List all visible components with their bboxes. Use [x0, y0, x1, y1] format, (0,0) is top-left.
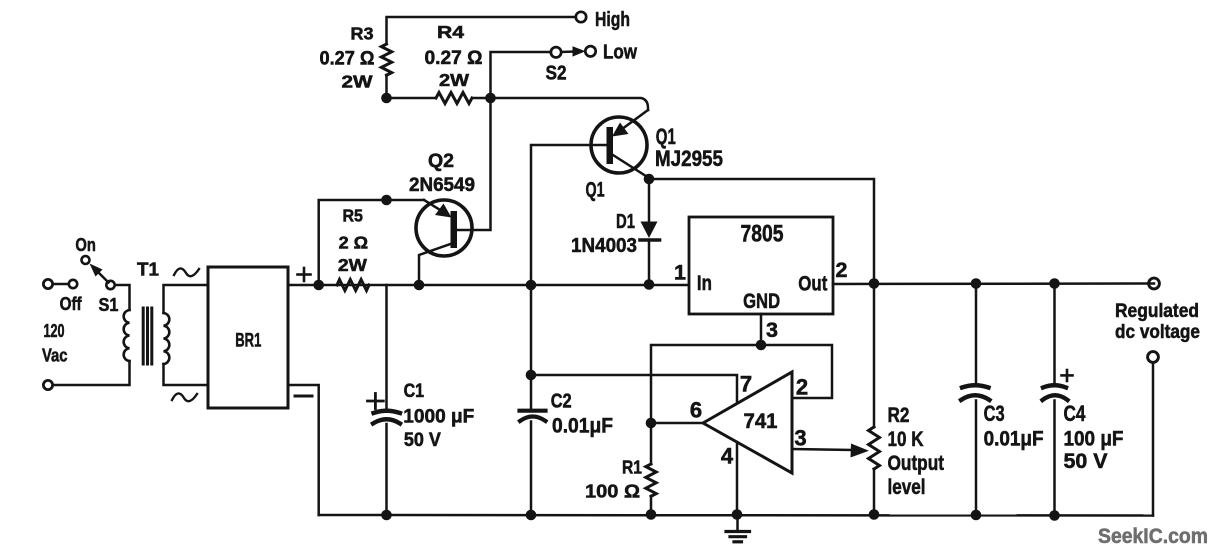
- svg-text:SeekIC.com: SeekIC.com: [1098, 524, 1208, 548]
- svg-text:7: 7: [740, 372, 752, 397]
- resistor R4: [387, 22, 483, 104]
- High terminal: [576, 12, 586, 22]
- wire rail to Q1 emitter: [491, 98, 649, 110]
- wire top rail to High terminal: [387, 17, 576, 44]
- wire op-amp pin 4: [721, 442, 737, 515]
- wire Low tap: [491, 52, 552, 98]
- label On: [75, 234, 96, 255]
- svg-text:R1: R1: [622, 457, 642, 478]
- plus sign C1: [368, 394, 384, 409]
- svg-text:6: 6: [690, 398, 702, 423]
- capacitor C3: [961, 284, 1044, 516]
- ac squiggle top: [174, 268, 199, 276]
- watermark SeekIC.com: [1098, 524, 1208, 548]
- svg-text:Vac: Vac: [42, 345, 68, 366]
- wire to off terminal: [53, 283, 69, 286]
- op-amp U2 741 body: [703, 372, 792, 473]
- svg-text:2: 2: [796, 375, 808, 400]
- node BR1 plus junction: [313, 280, 324, 291]
- node C3 bottom: [971, 510, 982, 521]
- wire op-amp pin 2 feedback loop: [651, 345, 832, 423]
- wire R5 bypass loop: [319, 200, 387, 285]
- switch S2 right terminal: [585, 46, 595, 56]
- svg-text:level: level: [888, 476, 926, 499]
- ac squiggle bottom: [172, 393, 197, 401]
- pin 1 label: [674, 261, 686, 285]
- label Off: [60, 293, 83, 314]
- svg-text:R3: R3: [351, 24, 374, 44]
- svg-text:100 Ω: 100 Ω: [585, 481, 640, 502]
- resistor R5: [337, 206, 369, 291]
- svg-text:Q2: Q2: [428, 150, 454, 172]
- svg-text:2W: 2W: [439, 70, 470, 90]
- transistor Q1 emitter lead with arrow: [612, 110, 648, 137]
- resistor R1: [585, 423, 656, 515]
- transformer T1 secondary winding: [164, 313, 170, 364]
- svg-text:Off: Off: [60, 293, 83, 314]
- label High: [595, 9, 630, 31]
- label minus at BR1 output: [295, 395, 312, 398]
- svg-text:Out: Out: [798, 273, 827, 296]
- svg-text:S2: S2: [546, 63, 567, 85]
- regulator U1 7805: [689, 217, 833, 314]
- pin 3 label: [766, 318, 778, 342]
- svg-text:1N4003: 1N4003: [571, 234, 637, 257]
- switch S1 off terminal: [69, 280, 77, 288]
- wire secondary bottom to BR1: [164, 364, 208, 385]
- transistor Q2 base bar: [451, 211, 458, 248]
- node D1 / 7805 In junction: [644, 279, 655, 290]
- label S2: [546, 63, 567, 85]
- output terminal negative: [1148, 352, 1159, 363]
- svg-text:On: On: [75, 234, 96, 255]
- transistor Q2 body: [416, 200, 472, 256]
- label Q2 2N6549: [409, 150, 475, 196]
- svg-text:100 μF: 100 μF: [1064, 428, 1124, 451]
- node C1 bottom: [381, 510, 392, 521]
- wire BR1 plus to main rail: [288, 284, 319, 287]
- node Q2 collector on rail: [414, 280, 425, 291]
- node rail junction at x874: [869, 278, 880, 289]
- resistor R3: [320, 24, 392, 92]
- svg-text:R2: R2: [888, 404, 910, 427]
- svg-text:4: 4: [721, 444, 734, 469]
- node C4 top on rail: [1049, 278, 1060, 289]
- node C4 bottom: [1049, 510, 1060, 521]
- main positive rail: [319, 284, 1154, 286]
- diode D1: [571, 179, 660, 284]
- svg-text:10 K: 10 K: [888, 428, 924, 451]
- wire S1 to transformer primary: [115, 285, 130, 310]
- 120 Vac line terminal top: [43, 279, 52, 288]
- ground symbol: [726, 515, 750, 542]
- svg-text:Regulated: Regulated: [1115, 300, 1199, 322]
- label Q1 MJ2955: [655, 124, 723, 171]
- svg-text:7805: 7805: [741, 221, 784, 248]
- svg-text:MJ2955: MJ2955: [655, 146, 723, 171]
- node C2 top on rail: [526, 280, 537, 291]
- label 120 Vac: [42, 320, 68, 366]
- wire op-amp pin 7 supply: [531, 372, 752, 404]
- node Q1 collector junction: [644, 174, 655, 185]
- svg-text:0.01μF: 0.01μF: [984, 428, 1044, 451]
- plus sign C4: [1062, 370, 1073, 381]
- node pin3 / feedback junction: [756, 340, 767, 351]
- svg-text:C2: C2: [551, 391, 572, 413]
- output terminal positive: [1149, 278, 1160, 289]
- svg-text:D1: D1: [616, 210, 635, 233]
- svg-text:R5: R5: [342, 206, 363, 226]
- wire R4 to S2 node: [472, 97, 491, 100]
- svg-text:C4: C4: [1064, 401, 1087, 426]
- svg-text:50 V: 50 V: [404, 430, 441, 451]
- svg-text:2 Ω: 2 Ω: [339, 233, 369, 253]
- svg-text:GND: GND: [743, 289, 780, 313]
- label Q1 below transistor: [586, 179, 605, 202]
- node R1 bottom: [646, 509, 657, 520]
- 120 Vac line terminal bottom: [43, 380, 52, 389]
- transformer T1 core: [143, 308, 152, 364]
- node R2 bottom: [869, 509, 880, 520]
- svg-text:3: 3: [794, 426, 806, 451]
- svg-text:2W: 2W: [342, 72, 374, 92]
- svg-text:BR1: BR1: [235, 330, 261, 351]
- pin 2 label: [836, 258, 848, 282]
- node C3 top on rail: [971, 278, 982, 289]
- label Low: [603, 42, 637, 64]
- label T1: [137, 259, 159, 280]
- svg-text:T1: T1: [137, 259, 159, 280]
- svg-text:2: 2: [836, 258, 848, 282]
- switch S2 arrow: [562, 46, 586, 56]
- svg-text:2W: 2W: [338, 255, 368, 275]
- label Regulated dc voltage: [1115, 300, 1200, 343]
- wire bottom terminal to primary: [53, 361, 130, 385]
- svg-text:Q1: Q1: [586, 179, 605, 202]
- node R3 / R4 junction: [381, 93, 392, 104]
- switch S1 on terminal: [82, 256, 90, 264]
- svg-text:High: High: [595, 9, 630, 31]
- svg-text:0.27 Ω: 0.27 Ω: [320, 49, 375, 70]
- capacitor C2: [520, 285, 614, 515]
- svg-text:50 V: 50 V: [1064, 450, 1108, 473]
- node pin4 bottom / ground: [732, 509, 743, 520]
- svg-text:1000 μF: 1000 μF: [403, 406, 474, 428]
- svg-text:dc voltage: dc voltage: [1115, 321, 1200, 343]
- wire secondary top to BR1: [164, 285, 208, 313]
- potentiometer R2: [869, 284, 945, 515]
- svg-text:In: In: [697, 272, 712, 295]
- node C2 / op-amp V+ junction: [526, 370, 537, 381]
- svg-text:C1: C1: [404, 381, 425, 402]
- svg-text:Low: Low: [603, 42, 637, 64]
- capacitor C4: [1043, 284, 1124, 516]
- switch S2 left terminal: [551, 47, 561, 57]
- label + at BR1 output: [298, 268, 311, 281]
- svg-text:1: 1: [674, 261, 686, 285]
- bridge rectifier BR1: [208, 267, 288, 408]
- svg-text:3: 3: [766, 318, 778, 342]
- switch S1 blade arrow: [90, 264, 109, 283]
- svg-text:741: 741: [744, 410, 778, 433]
- wire op-amp pin 6 output: [651, 398, 703, 424]
- wire output negative to bottom rail: [1152, 363, 1155, 516]
- svg-text:S1: S1: [99, 294, 119, 315]
- transistor Q1 base bar: [607, 127, 614, 164]
- wire Q1 collector to right drop: [649, 179, 874, 284]
- node R4 / S2 junction: [485, 93, 496, 104]
- switch S1 pole: [106, 281, 114, 289]
- node R5 bypass / R3 line junction: [381, 195, 392, 206]
- label S1: [99, 294, 119, 315]
- svg-text:C3: C3: [984, 401, 1005, 426]
- svg-text:R4: R4: [437, 22, 464, 42]
- svg-text:Output: Output: [888, 452, 945, 475]
- svg-text:0.01μF: 0.01μF: [552, 415, 613, 438]
- wire BR1 minus down to bottom rail: [288, 385, 319, 515]
- svg-text:2N6549: 2N6549: [409, 174, 475, 196]
- capacitor C1: [373, 285, 474, 515]
- transformer T1 primary winding: [124, 310, 130, 361]
- svg-text:0.27 Ω: 0.27 Ω: [425, 48, 483, 69]
- transistor Q2 collector lead: [419, 244, 451, 285]
- wire R3 to R4 rail: [385, 75, 388, 98]
- wire Q1 base to C2 line: [531, 145, 607, 285]
- transistor Q2 emitter lead with arrow: [387, 200, 452, 218]
- bottom ground rail: [319, 514, 1153, 517]
- node C2 bottom: [526, 510, 537, 521]
- wire Q2 base to R4/S2 line: [457, 98, 491, 230]
- transistor Q1 collector lead: [613, 155, 649, 178]
- wire 7805 GND pin 3: [760, 314, 763, 345]
- wire op-amp pin 3 to R2 wiper arrow: [792, 426, 869, 458]
- node pin6 / R1 junction: [646, 418, 657, 429]
- svg-text:120: 120: [44, 320, 65, 341]
- transistor Q1 body: [591, 117, 647, 173]
